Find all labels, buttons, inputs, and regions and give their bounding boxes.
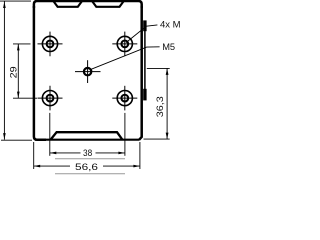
svg-text:4x M5: 4x M5 xyxy=(160,20,180,31)
svg-text:56,6: 56,6 xyxy=(75,162,98,173)
svg-text:38: 38 xyxy=(83,148,92,158)
svg-text:M5: M5 xyxy=(162,42,175,52)
svg-text:36,3: 36,3 xyxy=(155,96,166,117)
svg-text:29: 29 xyxy=(8,66,18,78)
